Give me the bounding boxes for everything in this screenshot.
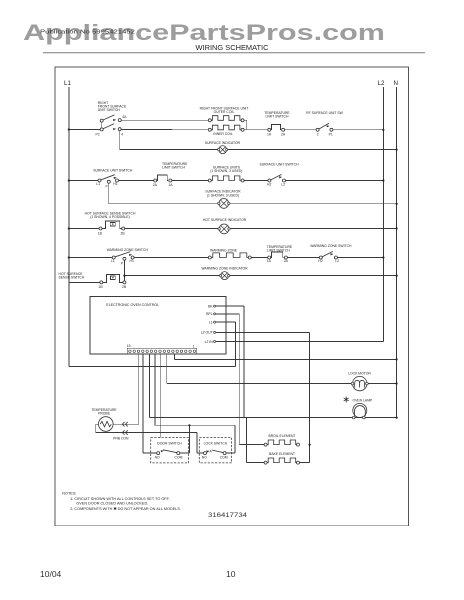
svg-text:H2: H2 (267, 182, 271, 186)
svg-text:L2 IN: L2 IN (205, 340, 214, 344)
svg-text:ELECTRONIC OVEN CONTROL: ELECTRONIC OVEN CONTROL (106, 303, 159, 307)
svg-text:L1: L1 (209, 320, 213, 324)
svg-text:L1: L1 (111, 259, 115, 263)
svg-text:WARMING ZONE SWITCH: WARMING ZONE SWITCH (107, 248, 149, 252)
svg-text:P1: P1 (329, 133, 333, 137)
svg-text:WARMING ZONE SWITCH: WARMING ZONE SWITCH (310, 244, 352, 248)
svg-text:SURFACE UNIT SWITCH: SURFACE UNIT SWITCH (93, 169, 133, 173)
svg-text:UNIT SWITCH: UNIT SWITCH (98, 108, 121, 112)
svg-text:NO: NO (202, 456, 207, 460)
svg-text:L2 OUT: L2 OUT (201, 331, 213, 335)
svg-text:BAKE ELEMENT: BAKE ELEMENT (269, 452, 295, 456)
svg-text:2A: 2A (284, 259, 289, 263)
svg-text:L1: L1 (96, 182, 100, 186)
svg-text:1A: 1A (267, 259, 272, 263)
svg-text:1B: 1B (99, 285, 104, 289)
svg-text:WIRING SCHEMATIC: WIRING SCHEMATIC (196, 45, 269, 52)
svg-text:NO: NO (155, 456, 160, 460)
svg-text:N: N (394, 80, 398, 87)
svg-text:OUTER COIL: OUTER COIL (214, 110, 235, 114)
svg-text:BROIL ELEMENT: BROIL ELEMENT (268, 434, 295, 438)
svg-text:SURFACE INDICATOR: SURFACE INDICATOR (205, 141, 241, 145)
svg-text:1A: 1A (168, 183, 173, 187)
svg-text:L1: L1 (64, 80, 71, 87)
svg-text:COM: COM (220, 456, 228, 460)
svg-text:1B: 1B (98, 231, 103, 235)
svg-text:L2: L2 (281, 182, 285, 186)
svg-text:10: 10 (226, 569, 236, 579)
svg-text:H1: H1 (130, 259, 134, 263)
svg-text:H2: H2 (318, 259, 322, 263)
svg-text:INNER COIL: INNER COIL (213, 132, 233, 136)
svg-text:WARMING ZONE: WARMING ZONE (210, 248, 238, 252)
svg-text:NOTES:: NOTES: (62, 492, 76, 496)
svg-text:(1 SHOWN, 3 USED): (1 SHOWN, 3 USED) (210, 169, 242, 173)
svg-text:P: P (106, 184, 109, 188)
svg-text:(1 SHOWN, 3 USED): (1 SHOWN, 3 USED) (207, 193, 239, 197)
svg-text:2B: 2B (121, 231, 126, 235)
svg-text:LIMIT SWITCH: LIMIT SWITCH (266, 115, 289, 119)
svg-text:2A: 2A (153, 183, 158, 187)
svg-text:RF SURFACE UNIT SW: RF SURFACE UNIT SW (306, 111, 343, 115)
svg-text:H1: H1 (113, 182, 117, 186)
svg-text:2A: 2A (281, 133, 286, 137)
svg-text:LOCK MOTOR: LOCK MOTOR (348, 372, 371, 376)
svg-text:COM: COM (175, 456, 183, 460)
svg-text:1A: 1A (267, 133, 272, 137)
svg-text:L2: L2 (335, 259, 339, 263)
svg-text:4A: 4A (122, 115, 127, 119)
svg-text:15: 15 (127, 344, 131, 348)
svg-text:LIMIT SWITCH: LIMIT SWITCH (267, 248, 290, 252)
svg-text:P: P (121, 261, 124, 265)
svg-text:10/04: 10/04 (40, 569, 62, 579)
svg-text:P2: P2 (96, 133, 100, 137)
svg-text:SURFACE UNIT SWITCH: SURFACE UNIT SWITCH (259, 163, 299, 167)
svg-text:OVEN LAMP: OVEN LAMP (353, 399, 374, 403)
svg-text:OVEN DOOR CLOSED AND UNLOCKED.: OVEN DOOR CLOSED AND UNLOCKED. (76, 502, 148, 506)
svg-text:2B: 2B (122, 285, 127, 289)
svg-text:HOT SURFACE INDICATOR: HOT SURFACE INDICATOR (203, 218, 247, 222)
svg-text:BK: BK (208, 304, 213, 308)
svg-text:DOOR SWITCH: DOOR SWITCH (157, 441, 182, 445)
svg-text:PROBE: PROBE (98, 412, 111, 416)
svg-text:2. COMPONENTS WITH ✱ DO NOT: 2. COMPONENTS WITH ✱ DO NOT APPEAR ON AL… (70, 507, 181, 511)
svg-text:316417734: 316417734 (208, 512, 247, 519)
svg-text:(1 SHOWN, 4 POSSIBLE): (1 SHOWN, 4 POSSIBLE) (90, 215, 130, 219)
svg-text:1: 1 (193, 344, 195, 348)
svg-text:PRB CON: PRB CON (113, 437, 129, 441)
svg-text:Publication No 5995421452: Publication No 5995421452 (40, 30, 135, 36)
svg-text:LOCK SWITCH: LOCK SWITCH (204, 441, 228, 445)
svg-text:SENSE SWITCH: SENSE SWITCH (59, 276, 85, 280)
svg-text:1. CIRCUIT SHOWN WITH ALL CON: 1. CIRCUIT SHOWN WITH ALL CONTROLS SET T… (70, 497, 169, 501)
svg-text:L2: L2 (378, 80, 385, 87)
svg-text:BPL: BPL (206, 312, 213, 316)
svg-text:4: 4 (121, 133, 123, 137)
svg-text:LIMIT SWITCH: LIMIT SWITCH (162, 165, 185, 169)
svg-text:2: 2 (317, 133, 319, 137)
svg-text:WARMING ZONE INDICATOR: WARMING ZONE INDICATOR (201, 267, 248, 271)
